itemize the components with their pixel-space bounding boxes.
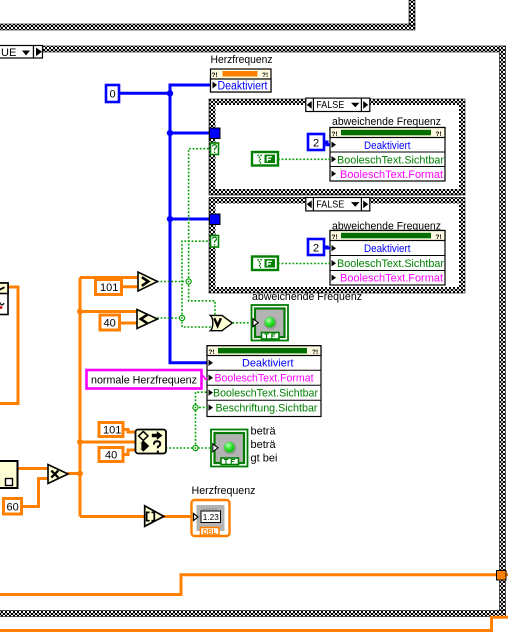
wire multiply output <box>67 472 80 475</box>
wire vertical to conversion bullet <box>80 515 144 518</box>
wire blue to case 1 tunnel <box>170 132 210 135</box>
svg-text:Beschriftung.Sichtbar: Beschriftung.Sichtbar <box>216 402 318 414</box>
svg-text:60: 60 <box>7 502 19 514</box>
wire 40 to in-range lower <box>123 450 136 455</box>
case 2 false constant <box>252 257 278 271</box>
svg-text:gt bei: gt bei <box>251 453 278 465</box>
wire 60 to multiply <box>21 479 48 507</box>
svg-text:DBL: DBL <box>203 529 218 536</box>
svg-text:BooleschText.Format: BooleschText.Format <box>215 373 314 385</box>
multiply function <box>48 465 68 484</box>
svg-text:abweichende Frequenz: abweichende Frequenz <box>332 116 441 128</box>
numeric constant 40 (lower) <box>99 448 123 462</box>
svg-text:FALSE: FALSE <box>316 200 344 211</box>
wire conversion to DBL indicator <box>163 515 192 518</box>
svg-text:abweichende Frequenz: abweichende Frequenz <box>252 291 362 303</box>
case 2 selector FALSE <box>306 198 370 211</box>
case 1 constant 2 <box>308 134 330 150</box>
numeric constant 0 <box>106 85 119 102</box>
numeric constant 40 (upper) <box>100 315 120 330</box>
svg-text:Deaktiviert: Deaktiviert <box>242 358 294 370</box>
upper structure border (bottom-right corner, cut off at top) <box>0 0 415 30</box>
svg-text:?!: ?! <box>312 349 318 356</box>
wire green dotted: less output to junction B, up to case2 tunnel, down to OR <box>157 241 212 327</box>
numeric constant 60 <box>4 499 22 515</box>
svg-text:BooleschText.Sichtbar: BooleschText.Sichtbar <box>337 258 444 270</box>
OR function <box>210 315 232 330</box>
svg-text:101: 101 <box>103 425 121 437</box>
numeric constant 101 (lower) <box>99 423 123 437</box>
case structure 1 (FALSE) <box>209 99 465 195</box>
blue junction dots <box>167 90 173 96</box>
wire subVI to multiply <box>17 467 48 470</box>
label beside LED2 <box>251 426 278 465</box>
case 2 constant 2 <box>308 239 330 255</box>
svg-text:40: 40 <box>104 318 116 330</box>
wire green dotted: greater output to junction A and up to case1 tunnel <box>157 149 215 316</box>
svg-text:beträ: beträ <box>251 426 277 438</box>
wire 101 to in-range upper <box>123 430 136 433</box>
tunnel orange on right border <box>497 571 507 581</box>
wire junction dots on vertical <box>77 309 83 315</box>
wire 40 to less-than <box>119 322 137 325</box>
svg-text:BooleschText.Sichtbar: BooleschText.Sichtbar <box>337 154 444 166</box>
svg-text:beträ: beträ <box>251 439 277 451</box>
wire orange from sine icon <box>0 287 18 404</box>
svg-text:BooleschText.Format: BooleschText.Format <box>340 169 443 181</box>
svg-text:?!: ?! <box>436 234 442 241</box>
conversion bullet [] <box>145 506 164 527</box>
svg-text:?!: ?! <box>332 131 338 138</box>
big property node (4 rows) <box>207 346 321 417</box>
case 1 blue tunnel <box>210 128 221 139</box>
svg-text:normale Herzfrequenz: normale Herzfrequenz <box>91 375 197 387</box>
greater-than function <box>138 272 158 291</box>
svg-text:?!: ?! <box>436 131 442 138</box>
wire green dotted F to node 2 <box>278 263 330 265</box>
case structure 2 (FALSE) <box>209 198 465 294</box>
svg-text:2: 2 <box>313 243 319 255</box>
case 2 property node <box>330 231 445 286</box>
wire blue main vertical <box>170 93 208 362</box>
wire blue from 0 constant <box>119 92 170 95</box>
svg-text:0: 0 <box>110 89 116 101</box>
svg-text:FALSE: FALSE <box>316 100 344 111</box>
wire blue to case 2 tunnel <box>170 218 210 221</box>
svg-text:?!: ?! <box>209 349 215 356</box>
wire pink squiggle to node <box>202 376 208 380</box>
svg-text:Herzfrequenz: Herzfrequenz <box>211 54 273 66</box>
case 1 boolean ? tunnel <box>211 143 219 155</box>
wire 101 to greater-than <box>121 285 139 288</box>
sine sub-VI icon (cut off at left) <box>0 283 8 315</box>
junction C <box>193 445 198 450</box>
svg-text:?!: ?! <box>262 72 268 79</box>
junction D <box>193 405 198 410</box>
wire tunnel stub right <box>506 573 508 576</box>
sub-VI beige box (cut off at left) <box>0 461 18 488</box>
svg-text:BooleschText.Format: BooleschText.Format <box>340 273 443 285</box>
in-range-and-coerce function <box>136 430 167 454</box>
boolean LED indicator 2 <box>211 430 248 467</box>
svg-text:101: 101 <box>100 282 118 294</box>
junction B <box>179 315 184 320</box>
case 1 selector FALSE <box>306 98 370 111</box>
string constant normale Herzfrequenz <box>87 370 202 389</box>
numeric constant 101 (upper) <box>96 280 122 295</box>
main orange vertical wire from multiply output <box>79 278 82 517</box>
svg-text:Herzfrequenz: Herzfrequenz <box>192 485 256 497</box>
wire bottom outside wire <box>0 617 508 630</box>
case 1 false constant <box>252 152 278 166</box>
wire blue up into Herzfrequenz property node <box>170 85 212 93</box>
DBL numeric indicator Herzfrequenz <box>192 500 230 536</box>
wire green dotted from in-range up to big node rows <box>166 392 213 448</box>
wire green dotted F to node <box>278 158 330 160</box>
junction A <box>186 279 191 284</box>
wire bottom long wire to tunnel <box>0 575 497 595</box>
wire to greater-than top input <box>80 276 138 279</box>
svg-text:Deaktiviert: Deaktiviert <box>364 243 411 255</box>
svg-text:Deaktiviert: Deaktiviert <box>364 140 411 152</box>
svg-text:UE: UE <box>1 47 16 59</box>
wire to less-than top input <box>80 310 137 313</box>
boolean LED indicator 1 <box>252 305 289 341</box>
svg-text:Deaktiviert: Deaktiviert <box>218 81 269 93</box>
outer case selector label "...UE" (TRUE, cut off at left) <box>0 46 43 60</box>
svg-text:?!: ?! <box>212 72 218 79</box>
svg-text:1.23: 1.23 <box>203 512 219 522</box>
Herzfrequenz property node (orange bar) <box>211 69 272 93</box>
svg-text:?!: ?! <box>332 234 338 241</box>
less-than function <box>137 310 158 329</box>
wire green dotted OR output to LED1 <box>233 322 254 324</box>
svg-text:BooleschText.Sichtbar: BooleschText.Sichtbar <box>213 387 318 399</box>
svg-text:2: 2 <box>313 138 319 150</box>
wire to in-range x input <box>80 441 136 444</box>
case 2 boolean ? tunnel <box>211 236 219 248</box>
case 2 blue tunnel <box>210 214 221 225</box>
case 1 property node <box>330 128 445 182</box>
svg-text:40: 40 <box>105 450 117 462</box>
